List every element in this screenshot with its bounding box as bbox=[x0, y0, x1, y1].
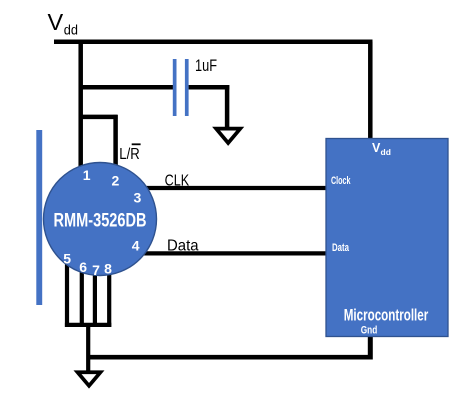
svg-text:dd: dd bbox=[64, 22, 78, 37]
svg-text:3: 3 bbox=[134, 189, 142, 205]
svg-text:7: 7 bbox=[92, 262, 100, 278]
svg-text:RMM-3526DB: RMM-3526DB bbox=[54, 210, 147, 231]
svg-text:8: 8 bbox=[104, 261, 112, 277]
svg-text:1uF: 1uF bbox=[195, 57, 217, 75]
svg-text:Data: Data bbox=[167, 237, 199, 254]
svg-text:V: V bbox=[48, 9, 64, 35]
svg-text:Data: Data bbox=[332, 242, 350, 254]
svg-text:5: 5 bbox=[63, 250, 71, 266]
svg-text:CLK: CLK bbox=[165, 172, 190, 189]
svg-text:1: 1 bbox=[83, 167, 91, 183]
svg-text:Microcontroller: Microcontroller bbox=[344, 307, 429, 325]
svg-text:L/R: L/R bbox=[119, 146, 139, 163]
svg-text:6: 6 bbox=[79, 259, 87, 275]
svg-text:Gnd: Gnd bbox=[361, 325, 378, 337]
svg-text:4: 4 bbox=[132, 238, 140, 254]
svg-text:2: 2 bbox=[112, 173, 120, 189]
svg-text:dd: dd bbox=[381, 147, 391, 157]
svg-text:Clock: Clock bbox=[331, 175, 351, 187]
